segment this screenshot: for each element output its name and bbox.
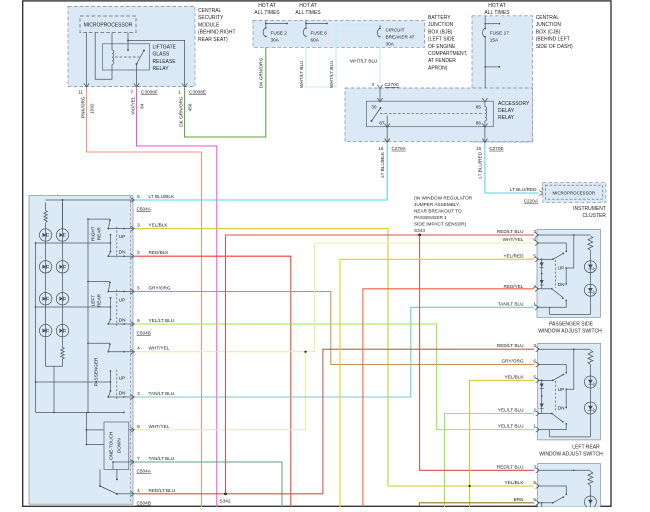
wire RED/LT BLU master pin4b with splice S342	[135, 349, 534, 494]
diode D12	[540, 404, 544, 408]
svg-text:3: 3	[371, 82, 374, 87]
svg-text:(LEFT SIDE: (LEFT SIDE	[428, 37, 456, 43]
svg-text:6: 6	[533, 237, 536, 242]
svg-text:ACCESSORY: ACCESSORY	[498, 101, 530, 107]
svg-text:REAR: REAR	[97, 293, 102, 307]
svg-text:YEL/LT BLU: YEL/LT BLU	[498, 424, 524, 429]
svg-text:CENTRAL: CENTRAL	[536, 15, 560, 21]
svg-text:RED/YEL: RED/YEL	[503, 284, 523, 289]
svg-text:BREAKER 47: BREAKER 47	[386, 35, 415, 40]
svg-text:RELEASE: RELEASE	[153, 59, 177, 65]
bottom switch diode bus (cut)	[541, 503, 543, 507]
svg-text:JUNCTION: JUNCTION	[536, 22, 562, 28]
svg-text:MODULE: MODULE	[198, 22, 220, 28]
svg-text:DN: DN	[558, 282, 565, 287]
left rear pin chevrons	[536, 347, 540, 352]
central junction box	[472, 16, 533, 142]
svg-text:C220A: C220A	[524, 199, 539, 204]
bottom switch pin chevrons	[536, 468, 540, 473]
svg-text:GRY/ORG: GRY/ORG	[149, 286, 171, 291]
wire microprocessor to relay coil bottom	[95, 33, 112, 80]
left rear LED 2	[584, 402, 596, 414]
svg-text:UP: UP	[119, 375, 126, 380]
connector face dashed line	[130, 196, 132, 505]
svg-text:RELAY: RELAY	[498, 115, 515, 121]
wire microprocessor to relay contact node	[127, 33, 129, 51]
relay pin 85 chevron	[482, 98, 487, 102]
svg-text:FUSE 6: FUSE 6	[311, 31, 328, 36]
bottom switch pin 5 feed	[538, 502, 553, 504]
svg-text:SIDE IMPACT SENSOR): SIDE IMPACT SENSOR)	[414, 222, 467, 227]
svg-text:LT BLU/RED: LT BLU/RED	[510, 187, 537, 192]
svg-text:84: 84	[140, 103, 145, 109]
passenger switch	[108, 351, 133, 353]
svg-text:PASSENGER 1: PASSENGER 1	[414, 215, 447, 220]
passenger LED 2	[584, 284, 596, 296]
svg-text:C270C: C270C	[385, 82, 400, 87]
connector C270E chevron	[482, 139, 487, 143]
svg-text:FUSE 17: FUSE 17	[490, 31, 509, 36]
circuit breaker 47	[377, 29, 380, 38]
svg-text:DELAY: DELAY	[498, 108, 515, 114]
svg-text:C270E: C270E	[489, 146, 503, 151]
svg-text:C504B: C504B	[137, 331, 151, 336]
wire PNK/ORG pin11 to splice trunk	[87, 88, 202, 507]
left rear diode bus	[541, 380, 543, 413]
bottom switch LED 1 (cut)	[584, 496, 596, 508]
svg-text:LT BLU/RED: LT BLU/RED	[478, 151, 483, 178]
svg-text:WHT/LT BLU: WHT/LT BLU	[299, 60, 304, 88]
svg-text:60A: 60A	[311, 38, 320, 43]
svg-text:ALL TIMES: ALL TIMES	[484, 10, 510, 16]
svg-text:CIRCUIT: CIRCUIT	[386, 28, 405, 33]
svg-text:YEL/BLK: YEL/BLK	[149, 223, 169, 228]
svg-text:1092: 1092	[90, 103, 95, 114]
svg-text:BRN: BRN	[514, 497, 524, 502]
svg-text:GRY/ORG: GRY/ORG	[501, 359, 523, 364]
svg-text:5: 5	[533, 374, 536, 379]
svg-text:ONE-TOUCH: ONE-TOUCH	[109, 432, 114, 460]
svg-text:S343: S343	[414, 228, 425, 233]
left rear LED 1	[584, 376, 596, 388]
svg-text:FUSE 2: FUSE 2	[271, 31, 288, 36]
svg-text:30: 30	[371, 105, 377, 110]
svg-text:7: 7	[137, 456, 140, 461]
svg-text:LT BLU/BLK: LT BLU/BLK	[380, 151, 385, 177]
wire WHT/YEL master pin4 to passenger pin 6	[135, 243, 534, 352]
relay pin 86 exit chevron	[482, 124, 487, 128]
fuse F2	[263, 28, 266, 37]
wire node to pin 1	[128, 40, 185, 86]
LED D3	[39, 261, 51, 273]
left bus A	[35, 243, 37, 412]
svg-text:7: 7	[130, 90, 133, 95]
splice S342	[224, 492, 227, 495]
svg-text:CLUSTER: CLUSTER	[583, 213, 607, 219]
svg-text:5: 5	[137, 286, 140, 291]
svg-text:YEL/LT BLU: YEL/LT BLU	[498, 408, 524, 413]
relay pin 30 chevron	[377, 98, 382, 102]
resistor R1	[45, 203, 47, 211]
svg-text:C504A: C504A	[137, 469, 152, 474]
svg-text:VIO/YEL: VIO/YEL	[131, 96, 136, 115]
svg-text:5: 5	[533, 497, 536, 502]
svg-text:TAN/LT BLU: TAN/LT BLU	[149, 391, 175, 396]
svg-text:COMPARTMENT,: COMPARTMENT,	[428, 51, 468, 57]
svg-text:(IN WINDOW REGULATOR: (IN WINDOW REGULATOR	[414, 196, 473, 201]
svg-text:RED/LT BLU: RED/LT BLU	[497, 464, 524, 469]
passenger pin chevrons	[535, 232, 539, 237]
svg-text:RED/LT BLU: RED/LT BLU	[149, 488, 176, 493]
svg-text:AT FENDER: AT FENDER	[428, 58, 456, 64]
svg-text:LT BLU/BLK: LT BLU/BLK	[149, 194, 175, 199]
pin 8 wire from one-touch box	[129, 429, 133, 431]
svg-text:15A: 15A	[490, 38, 499, 43]
LED D1	[39, 229, 51, 241]
svg-text:TAN/LT BLU: TAN/LT BLU	[149, 456, 175, 461]
fuse 2 feed wire	[265, 20, 267, 28]
bottom switch pin 6 contact stub	[538, 486, 567, 494]
instrument cluster connector chevron	[539, 190, 543, 195]
svg-text:YEL/RED: YEL/RED	[503, 253, 524, 258]
svg-text:WINDOW ADJUST SWITCH: WINDOW ADJUST SWITCH	[538, 328, 602, 334]
left rear pin 2 feed	[538, 413, 552, 415]
svg-text:5: 5	[533, 253, 536, 258]
relay switch blade	[372, 108, 381, 121]
svg-text:3: 3	[533, 343, 536, 348]
svg-text:DK GRN/ORG: DK GRN/ORG	[259, 57, 264, 88]
wire pin 87 to C270A	[386, 127, 388, 142]
relay actuation dashed link	[380, 112, 483, 114]
svg-text:MICROPROCESSOR: MICROPROCESSOR	[552, 191, 595, 196]
svg-text:WHT/YEL: WHT/YEL	[503, 237, 524, 242]
passenger down blade	[552, 289, 563, 298]
svg-text:DOWN: DOWN	[117, 438, 122, 453]
fuse F17	[483, 29, 486, 38]
left rear actuator dashed	[116, 290, 118, 327]
svg-text:OF ENGINE: OF ENGINE	[428, 44, 456, 50]
LED D4	[56, 261, 68, 273]
relay actuation dashed link	[115, 56, 140, 58]
left rear switch	[108, 291, 133, 293]
passenger LED chain	[550, 307, 591, 314]
svg-text:UP: UP	[119, 297, 126, 302]
LED D5	[39, 293, 51, 305]
svg-text:WHT/LT BLU: WHT/LT BLU	[350, 59, 378, 64]
svg-text:MICROPROCESSOR: MICROPROCESSOR	[84, 23, 133, 29]
svg-text:TAN/LT BLU: TAN/LT BLU	[498, 301, 524, 306]
svg-text:DK GRN/ORG: DK GRN/ORG	[179, 96, 184, 127]
svg-text:RED/LT BLU: RED/LT BLU	[497, 229, 524, 234]
battery junction box	[253, 20, 425, 47]
svg-text:GLASS: GLASS	[153, 52, 170, 58]
svg-text:1: 1	[178, 90, 181, 95]
svg-text:HOT AT: HOT AT	[488, 3, 506, 9]
left rear LED chain	[550, 430, 591, 437]
svg-text:6: 6	[533, 480, 536, 485]
svg-text:(BEHIND RIGHT: (BEHIND RIGHT	[198, 30, 236, 36]
svg-text:C270A: C270A	[392, 146, 407, 151]
one-touch down box	[104, 422, 129, 469]
svg-text:15: 15	[476, 146, 482, 151]
wire BRN bottom switch pin5	[419, 503, 534, 506]
right rear switch	[108, 228, 133, 230]
svg-text:DN: DN	[119, 390, 126, 395]
wire RED/LT BLU S343 branch to bottom switch pin 3	[420, 235, 534, 470]
wire microprocessor to relay coil top	[111, 33, 113, 51]
left rear window adjust switch box	[538, 343, 601, 440]
svg-text:3: 3	[137, 391, 140, 396]
passenger resistor	[588, 236, 593, 250]
fuse 6 feed wire	[305, 20, 307, 28]
left rear pin 5 feed	[538, 379, 553, 381]
wire YEL/LT BLU to left rear pin 2	[445, 414, 535, 508]
one-touch feed wires	[85, 412, 87, 444]
svg-text:JUMPER ASSEMBLY,: JUMPER ASSEMBLY,	[414, 202, 460, 207]
svg-text:C504A: C504A	[137, 207, 152, 212]
wire WHT/YEL master pin8 branch	[135, 352, 306, 430]
svg-text:HOT AT: HOT AT	[299, 3, 317, 9]
wire GRY/ORG master pin5 to left rear pin 6	[135, 292, 534, 365]
svg-text:3: 3	[533, 229, 536, 234]
wire relay switch to pin 7	[136, 64, 138, 87]
relay pin 87 exit chevron	[385, 124, 390, 128]
wire WHT/LT BLU fuse6 wrap to breaker input	[306, 25, 380, 87]
passenger pin 1 feed	[537, 300, 566, 307]
illumination feed line	[46, 199, 133, 201]
svg-text:INSTRUMENT: INSTRUMENT	[573, 206, 606, 212]
wire microprocessor to pin 11	[86, 33, 88, 87]
svg-text:456: 456	[188, 103, 193, 111]
LED lamp column feed	[62, 200, 64, 230]
left rear pin 1 feed	[538, 424, 567, 430]
bottom switch up blade	[553, 497, 564, 503]
common bus bottom	[36, 411, 125, 413]
svg-text:2: 2	[533, 284, 536, 289]
svg-text:3: 3	[533, 464, 536, 469]
svg-text:WINDOW ADJUST SWITCH: WINDOW ADJUST SWITCH	[539, 451, 603, 457]
wire TAN/LT BLU master pin7 down	[135, 462, 282, 507]
svg-text:8: 8	[137, 424, 140, 429]
wire YEL/BLK master pin3 to bottom switch pin 6	[135, 229, 534, 486]
svg-text:16: 16	[378, 146, 384, 151]
master pin chevrons	[130, 197, 134, 202]
pin 87 terminal wire	[386, 116, 388, 127]
wire pin 86 to C270E	[484, 127, 486, 142]
wire C270C to relay pin 30	[379, 89, 381, 101]
passenger actuator dashed	[116, 370, 118, 400]
fuse 17 feed wire	[484, 16, 486, 29]
right rear window adjust switch box (cut off)	[538, 464, 601, 507]
wire fuse 17 to relay pin 85	[484, 37, 486, 101]
svg-text:RELAY: RELAY	[153, 66, 170, 72]
pin 7 connector chevron	[134, 83, 139, 87]
svg-text:2: 2	[533, 408, 536, 413]
passenger pin 5 feed	[537, 258, 553, 260]
LED D2	[56, 229, 68, 241]
left rear up blade	[553, 375, 564, 381]
svg-text:WHT/YEL: WHT/YEL	[149, 424, 170, 429]
svg-text:LEFT: LEFT	[91, 295, 96, 307]
wire YEL/RED passenger pin5 down	[340, 259, 534, 507]
svg-text:(BEHIND LEFT: (BEHIND LEFT	[536, 37, 570, 43]
connector C270C chevron	[377, 85, 382, 89]
one-touch fixed contact	[116, 469, 118, 478]
svg-text:UP: UP	[119, 234, 126, 239]
LED D7	[39, 324, 51, 336]
svg-text:85: 85	[476, 105, 482, 110]
LED return junction	[46, 365, 63, 367]
wire WHT/LT BLU breaker to C270C	[379, 37, 381, 88]
right rear actuator dashed	[116, 227, 118, 259]
svg-text:HOT AT: HOT AT	[258, 3, 276, 9]
wire LT BLU/BLK C270A down and left to master pin 6	[135, 143, 387, 200]
svg-text:SECURITY: SECURITY	[198, 15, 224, 21]
relay coil	[485, 107, 487, 121]
svg-text:REAR SEAT): REAR SEAT)	[198, 37, 228, 43]
left rear actuator dashed	[555, 381, 557, 412]
svg-text:11: 11	[78, 90, 83, 95]
passenger LED 1	[584, 261, 596, 273]
wire YEL/BLK left rear pin5 down	[470, 380, 534, 507]
resistor R2	[61, 347, 64, 359]
svg-text:4: 4	[137, 488, 140, 493]
svg-text:APRON): APRON)	[428, 65, 448, 71]
svg-text:C3008E: C3008E	[189, 90, 206, 95]
passenger pin 3 internal feed	[537, 234, 590, 236]
svg-text:LIFTGATE: LIFTGATE	[153, 45, 177, 51]
passenger actuator contacts riser	[565, 267, 567, 269]
svg-text:ALL TIMES: ALL TIMES	[254, 10, 280, 16]
svg-text:C504B: C504B	[137, 500, 151, 505]
passenger side window adjust switch box	[537, 229, 601, 317]
one-touch output switch	[99, 469, 101, 486]
svg-text:86: 86	[476, 121, 482, 126]
passenger pin 6 contact stub	[537, 243, 566, 251]
wire RED/BLK master pin2 down	[135, 256, 291, 507]
accessory delay relay box	[366, 101, 493, 127]
svg-text:WHT/YEL: WHT/YEL	[149, 346, 170, 351]
LED column 2 wire	[62, 203, 64, 348]
passenger diode bus	[541, 259, 543, 289]
svg-text:6: 6	[533, 359, 536, 364]
svg-text:DN: DN	[119, 317, 126, 322]
svg-text:6: 6	[137, 318, 140, 323]
microprocessor U1 box	[80, 16, 136, 33]
left rear actuator contacts riser	[565, 388, 567, 390]
wire RED/LT BLU splice trunk up to passenger pin 3	[226, 235, 535, 494]
LED D8	[56, 324, 68, 336]
svg-text:C3008F: C3008F	[141, 90, 158, 95]
pin 1 connector chevron	[182, 83, 187, 87]
liftgate glass release relay box	[103, 44, 150, 70]
left rear resistor	[588, 350, 593, 364]
diode D11	[540, 384, 544, 388]
svg-text:87: 87	[379, 121, 385, 126]
svg-text:RED/LT BLU: RED/LT BLU	[497, 343, 524, 348]
svg-text:YEL/BLK: YEL/BLK	[504, 374, 524, 379]
driver master window switch box	[29, 196, 133, 505]
wire YEL/LT BLU master pin6 to left rear pin 1	[135, 324, 534, 430]
LED D6	[56, 293, 68, 305]
svg-text:YEL/LT BLU: YEL/LT BLU	[149, 318, 175, 323]
svg-text:2: 2	[137, 250, 140, 255]
svg-text:S342: S342	[220, 499, 231, 504]
svg-text:BOX (CJB): BOX (CJB)	[536, 29, 561, 35]
passenger actuator dashed	[555, 260, 557, 288]
svg-text:WHT/LT BLU: WHT/LT BLU	[329, 60, 334, 88]
bottom switch resistor	[588, 471, 593, 485]
passenger up blade	[553, 253, 564, 259]
svg-text:RIGHT: RIGHT	[91, 226, 96, 241]
relay switch contact	[380, 107, 382, 109]
svg-text:PNK/ORG: PNK/ORG	[81, 96, 86, 118]
instrument cluster outer box	[543, 183, 606, 203]
svg-text:SIDE OF DASH): SIDE OF DASH)	[536, 44, 573, 50]
svg-text:REAR: REAR	[97, 227, 102, 241]
passenger pin 2 feed	[537, 288, 552, 290]
diode D9	[540, 263, 544, 267]
svg-text:4: 4	[137, 346, 140, 351]
svg-text:UP: UP	[558, 387, 565, 392]
svg-text:6: 6	[137, 194, 140, 199]
pin 11 connector chevron	[84, 83, 89, 87]
left rear pin 6 contact stub	[538, 365, 567, 373]
fuse F6	[303, 28, 306, 37]
svg-text:CENTRAL: CENTRAL	[198, 8, 222, 14]
svg-text:BATTERY: BATTERY	[428, 15, 451, 21]
connector C270A chevron	[385, 139, 390, 143]
svg-text:YEL/BLK: YEL/BLK	[504, 480, 524, 485]
svg-text:LEFT REAR: LEFT REAR	[572, 444, 600, 450]
svg-text:30A: 30A	[386, 42, 395, 47]
wire TAN/LT BLU master pin3b to passenger pin 1	[135, 307, 534, 397]
bottom switch pin 3 internal feed	[538, 469, 591, 471]
svg-text:3: 3	[137, 223, 140, 228]
svg-text:UP: UP	[558, 266, 565, 271]
central security module box	[68, 7, 195, 87]
relay coil	[112, 50, 114, 64]
svg-text:ALL TIMES: ALL TIMES	[295, 10, 321, 16]
splice S343	[418, 234, 421, 237]
left rear down blade	[552, 414, 563, 422]
diode D10	[540, 280, 544, 284]
svg-text:DN: DN	[119, 250, 126, 255]
wire VIO/YEL pin7 down	[137, 88, 217, 507]
LED column 1 wire	[45, 223, 47, 367]
wire LT BLU/RED C270E down to instrument cluster	[485, 143, 539, 193]
svg-text:JUNCTION: JUNCTION	[428, 22, 454, 28]
svg-text:1: 1	[533, 301, 536, 306]
relay switch blade	[137, 51, 145, 65]
left rear pin 3 internal feed	[538, 348, 591, 350]
pin 7 wire stub	[113, 461, 133, 463]
left bus B	[87, 219, 89, 412]
accessory delay relay outer enclosure	[345, 88, 533, 142]
wire RED/YEL passenger pin2 down	[363, 289, 534, 507]
svg-text:BOX (BJB): BOX (BJB)	[428, 29, 453, 35]
svg-text:30A: 30A	[271, 38, 280, 43]
svg-text:1: 1	[533, 424, 536, 429]
instrument cluster microprocessor box	[545, 185, 602, 199]
svg-text:NEAR BREAKOUT TO: NEAR BREAKOUT TO	[414, 209, 462, 214]
wire DK GRN/ORG pin1 to fuse 2	[185, 37, 266, 138]
svg-text:DN: DN	[558, 406, 565, 411]
svg-text:PASSENGER SIDE: PASSENGER SIDE	[549, 321, 593, 327]
svg-text:RED/BLK: RED/BLK	[149, 250, 170, 255]
